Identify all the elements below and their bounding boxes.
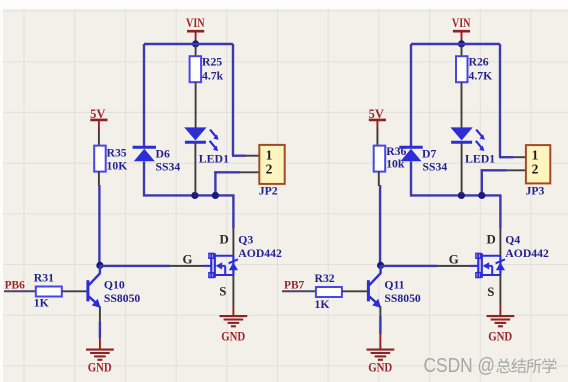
gate lead of Q3: [170, 265, 203, 267]
svg-text:R25: R25: [202, 56, 222, 69]
label Q10: [104, 278, 125, 291]
svg-text:JP3: JP3: [526, 185, 545, 198]
pin number 1 (JP2): [266, 147, 273, 162]
wire: R36 to Q11 collector node: [379, 185, 381, 265]
wire: bottom node down to Q4 drain: [499, 195, 501, 229]
svg-text:R26: R26: [469, 56, 489, 69]
value label SS34 (D7): [423, 161, 448, 174]
ground symbol GND (Q4 source): [487, 305, 515, 326]
svg-text:2: 2: [266, 162, 273, 177]
wire: Q11 emitter down: [379, 306, 381, 334]
label GND (Q11 emitter ground): [368, 360, 392, 374]
resistor R36: [374, 129, 386, 172]
watermark CSDN @zongjiesuoxue: [424, 355, 557, 377]
wire: left rail lower segment from D6 anode: [143, 161, 145, 196]
wire: PB7 stub: [282, 290, 316, 292]
connector JP3: [526, 145, 550, 183]
label Q11: [384, 278, 404, 291]
svg-text:LED1: LED1: [199, 152, 229, 165]
label R32: [315, 272, 335, 285]
svg-text:1K: 1K: [315, 298, 330, 311]
net label PB7: [284, 279, 305, 291]
label D6: [156, 148, 170, 161]
wire: bottom node down to Q3 drain: [232, 195, 234, 229]
junction dot: VIN node (right): [458, 40, 465, 47]
power port VIN (right): [452, 16, 471, 41]
resistor R32: [316, 287, 342, 297]
resistor R25: [190, 45, 202, 82]
wire: top horizontal VIN rail (left circuit): [144, 43, 233, 45]
mosfet Q3 AOD442: [203, 253, 238, 278]
junction dot: VIN node (left): [192, 40, 199, 47]
label LED1 (right): [465, 152, 495, 165]
wire: R25 bottom pin to LED1 anode: [195, 82, 197, 128]
label JP2: [259, 185, 278, 198]
wire: left rail upper segment to D6 cathode: [143, 44, 145, 147]
wire: right rail down to JP2 pin1: [232, 44, 246, 156]
label R25: [202, 56, 222, 69]
label JP3: [526, 185, 545, 198]
wire: Q10 emitter down: [99, 306, 101, 338]
svg-text:SS34: SS34: [423, 161, 448, 174]
LED LED1 (right): [450, 127, 484, 151]
pin number 2 (JP3): [532, 162, 539, 177]
ground symbol GND (Q3 source): [220, 305, 248, 326]
wire: top horizontal VIN rail (right circuit): [411, 43, 500, 45]
junction dot: Q10 collector / Q3 gate node: [96, 262, 103, 269]
label S (Q4 source): [487, 285, 494, 299]
junction dot: LED cathode on bottom wire: [191, 192, 198, 199]
svg-text:SS8050: SS8050: [104, 292, 141, 305]
transistor Q11 SS8050: [368, 273, 381, 308]
svg-text:R35: R35: [107, 147, 127, 160]
label LED1 (left): [199, 152, 229, 165]
diode D6: [133, 147, 156, 161]
svg-text:10k: 10k: [386, 158, 405, 171]
svg-text:SS8050: SS8050: [384, 292, 421, 305]
svg-text:PB6: PB6: [5, 279, 26, 291]
connector JP2: [259, 145, 284, 184]
junction dot: LED cathode on bottom wire (right): [458, 192, 465, 199]
label D (Q4 drain): [487, 233, 496, 247]
svg-text:VIN: VIN: [186, 16, 205, 30]
svg-text:GND: GND: [88, 360, 112, 374]
svg-text:GND: GND: [368, 360, 392, 374]
svg-text:LED1: LED1: [465, 152, 495, 165]
label Q3: [238, 234, 253, 247]
value label 1K (R32): [315, 298, 330, 311]
svg-text:SS34: SS34: [156, 161, 181, 174]
wire: LED1 cathode down to bottom node: [194, 144, 196, 195]
value label AOD442 (Q4): [505, 247, 549, 260]
pin 2 lead of JP3: [507, 169, 526, 171]
svg-text:Q11: Q11: [384, 278, 404, 291]
svg-text:R31: R31: [34, 272, 54, 285]
label R26: [469, 56, 489, 69]
gate lead of Q4: [437, 265, 470, 267]
power port VIN (left): [186, 16, 205, 41]
label R35: [107, 147, 127, 160]
wire: left rail lower segment from D7 anode: [410, 161, 412, 196]
wire: bottom horizontal of loop (LED cathode node): [143, 194, 234, 196]
svg-text:S: S: [487, 285, 494, 299]
wire: R36 bottom pin: [378, 172, 380, 186]
drain lead of Q3: [232, 229, 234, 257]
diode D7: [399, 147, 422, 161]
svg-text:Q3: Q3: [238, 234, 253, 247]
value label 1K (R31): [34, 296, 49, 309]
value label 10K (R35): [107, 160, 128, 173]
source lead of Q4: [499, 275, 501, 306]
svg-text:JP2: JP2: [259, 185, 278, 198]
wire: Q10 collector to node: [99, 265, 101, 273]
mosfet Q4 AOD442: [470, 253, 505, 278]
wire: LED1 cathode down to bottom node (right): [461, 144, 463, 195]
svg-text:1: 1: [266, 147, 273, 162]
source lead of Q3: [232, 275, 234, 306]
svg-text:D: D: [487, 233, 496, 247]
label R31: [34, 272, 54, 285]
resistor R26: [456, 45, 468, 82]
LED LED1 (left): [184, 127, 218, 151]
label R36: [386, 145, 406, 158]
junction dot: JP3 pin2 branch: [478, 192, 485, 199]
svg-text:D7: D7: [422, 148, 436, 161]
resistor R35: [94, 129, 106, 172]
pin 2 lead of JP2: [240, 171, 259, 173]
drain lead of Q4: [499, 229, 501, 257]
svg-text:4.7k: 4.7k: [202, 70, 224, 83]
label GND (Q4 source ground): [488, 330, 512, 344]
label D7: [422, 148, 436, 161]
wire: right rail down to JP3 pin1: [499, 44, 513, 157]
pin 1 lead of JP2: [246, 155, 259, 157]
net label PB6: [5, 279, 26, 291]
svg-text:GND: GND: [488, 330, 512, 344]
resistor R31: [36, 287, 62, 297]
transistor Q10 SS8050: [88, 273, 101, 308]
svg-text:GND: GND: [221, 330, 245, 344]
label D (Q3 drain): [220, 233, 229, 247]
svg-text:1: 1: [532, 147, 539, 162]
wire: Q11 collector to node: [379, 265, 381, 273]
wire: gate node to Q4: [381, 265, 437, 267]
wire: R26 bottom pin to LED1 anode (right): [461, 82, 463, 128]
junction dot: JP2 pin2 branch: [212, 192, 219, 199]
wire: R32 to Q11 base: [342, 290, 367, 292]
value label 4.7k (R25): [202, 70, 224, 83]
label S (Q3 source): [219, 284, 226, 298]
value label SS8050 (Q11): [384, 292, 421, 305]
ground symbol GND (Q11 emitter): [367, 333, 395, 360]
svg-text:Q4: Q4: [505, 234, 520, 247]
svg-text:AOD442: AOD442: [238, 247, 282, 260]
svg-text:R36: R36: [386, 145, 406, 158]
wire: vertical up to JP3 pin2: [481, 169, 507, 195]
value label SS8050 (Q10): [104, 292, 141, 305]
junction dot: Q11 collector / Q4 gate node: [377, 262, 384, 269]
svg-text:Q10: Q10: [104, 278, 125, 291]
wire: R35 bottom pin: [98, 172, 100, 186]
svg-text:G: G: [449, 253, 459, 267]
label G (Q4 gate): [449, 253, 459, 267]
svg-text:VIN: VIN: [452, 16, 471, 30]
power port 5V (right): [369, 107, 386, 130]
wire: left rail upper segment to D7 cathode: [410, 44, 412, 147]
label GND (Q3 source ground): [221, 330, 245, 344]
label Q4: [505, 234, 520, 247]
svg-text:S: S: [219, 284, 226, 298]
svg-text:D6: D6: [156, 148, 170, 161]
svg-text:4.7K: 4.7K: [469, 70, 493, 83]
wire: gate node to Q3: [100, 265, 170, 267]
power port 5V (left): [90, 107, 107, 130]
wire: bottom horizontal of loop (right LED cathode node): [410, 194, 501, 196]
svg-text:1K: 1K: [34, 296, 49, 309]
value label 10k (R36): [386, 158, 405, 171]
pin number 1 (JP3): [532, 147, 539, 162]
svg-text:D: D: [220, 233, 229, 247]
svg-text:10K: 10K: [107, 160, 128, 173]
value label AOD442 (Q3): [238, 247, 282, 260]
value label 4.7K (R26): [469, 70, 493, 83]
svg-text:G: G: [183, 253, 193, 267]
svg-text:CSDN @: CSDN @: [424, 355, 496, 377]
wire: R31 to Q10 base: [62, 290, 87, 292]
svg-text:AOD442: AOD442: [505, 247, 549, 260]
value label SS34 (D6): [156, 161, 181, 174]
label GND (Q10 emitter ground): [88, 360, 112, 374]
pin 1 lead of JP3: [513, 156, 526, 158]
ground symbol GND (Q10 emitter): [86, 337, 114, 360]
label G (Q3 gate): [183, 253, 193, 267]
wire: vertical up to JP2 pin2: [214, 171, 240, 195]
svg-text:2: 2: [532, 162, 539, 177]
svg-text:PB7: PB7: [284, 279, 305, 291]
wire: R35 to Q10 collector node: [98, 185, 100, 265]
svg-text:R32: R32: [315, 272, 335, 285]
pin number 2 (JP2): [266, 162, 273, 177]
wire: PB6 stub: [4, 290, 36, 292]
